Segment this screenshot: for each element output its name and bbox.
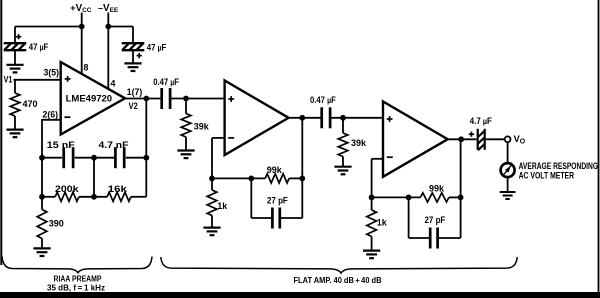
- wire 27pF-1 bottom a: [251, 217, 271, 219]
- svg-text:8: 8: [84, 63, 89, 73]
- wire feedback bottom row b: [79, 196, 107, 198]
- wire 27pF-2 right rise: [460, 197, 462, 238]
- svg-text:4.7 nF: 4.7 nF: [99, 140, 130, 150]
- wire left feedback column: [41, 119, 43, 210]
- wire U2 fb row b: [289, 177, 302, 179]
- wire U2 inv column: [211, 138, 213, 179]
- resistor 99k 2: [420, 193, 449, 202]
- U2 - input mark: [228, 137, 234, 139]
- C out + mark: [469, 132, 474, 137]
- wire C1 bottom stem: [14, 51, 16, 64]
- capacitor 0.47 uF 1: [162, 88, 170, 109]
- node U2 inv junction: [209, 176, 215, 182]
- U2 + input mark: [228, 96, 234, 102]
- C1 + mark: [16, 34, 21, 39]
- wire VO to meter: [507, 142, 509, 162]
- svg-text:35 dB, f = 1 kHz: 35 dB, f = 1 kHz: [47, 283, 105, 293]
- bottom border bar: [0, 292, 600, 298]
- capacitor 4.7 nF: [115, 147, 124, 168]
- ground below 470: [6, 130, 23, 138]
- wire U3 fb vertical: [460, 139, 462, 197]
- node VCC junction: [79, 24, 85, 30]
- U1 + input mark: [65, 76, 71, 82]
- capacitor 15 nF: [64, 147, 73, 168]
- wire 27pF-2 left drop: [408, 197, 410, 238]
- wire U2 - input: [212, 137, 225, 139]
- capacitor 27 pF 1: [272, 208, 279, 229]
- U3 - input mark: [387, 156, 393, 158]
- wire U1 - input: [42, 119, 61, 121]
- wire 1k-2 bottom stem: [371, 237, 373, 251]
- wire VCC rail to C1: [15, 26, 82, 28]
- capacitor C1 47uF: [4, 43, 27, 50]
- ground below 39k 1: [177, 151, 194, 159]
- node feedback bottom left: [39, 194, 45, 200]
- meter M1 circle: [501, 163, 515, 177]
- svg-text:39k: 39k: [194, 122, 210, 132]
- svg-text:470: 470: [23, 99, 38, 109]
- wire cap to VO terminal: [486, 138, 505, 140]
- ground below 1k 1: [203, 228, 220, 236]
- wire U2 output: [289, 117, 321, 119]
- wire 470 bottom stem: [14, 116, 16, 129]
- resistor 16k: [107, 192, 131, 201]
- svg-text:1k: 1k: [377, 218, 388, 228]
- resistor 1k 1: [207, 190, 217, 216]
- wire VCC stem to pin 8: [81, 13, 83, 75]
- wire V1 to op-amp + input: [14, 79, 61, 81]
- resistor 390: [37, 210, 47, 239]
- U3 + input mark: [387, 116, 393, 122]
- resistor 39k 1: [181, 114, 191, 138]
- wire 27pF-1 left drop: [250, 178, 252, 218]
- wire C2 top stem: [132, 27, 134, 44]
- svg-text:2(6): 2(6): [43, 110, 59, 120]
- C2 + mark: [137, 53, 142, 58]
- wire 1k-1 bottom stem: [211, 216, 213, 228]
- capacitor 4.7 uF: [478, 129, 485, 150]
- resistor 39k 2: [338, 133, 348, 157]
- wire V2 down to feedback: [145, 99, 147, 197]
- svg-text:3(5): 3(5): [44, 67, 60, 77]
- svg-text:4.7 µF: 4.7 µF: [470, 116, 493, 126]
- node U3 fb left: [406, 195, 412, 201]
- node feedback bottom mid: [91, 194, 97, 200]
- svg-text:FLAT AMP. 40 dB + 40 dB: FLAT AMP. 40 dB + 40 dB: [294, 275, 382, 285]
- resistor 1k 2: [367, 210, 377, 237]
- wire U2 fb vertical: [301, 118, 303, 179]
- wire 470 top stem: [14, 80, 16, 93]
- op-amp U3: [383, 102, 448, 177]
- svg-text:0.47 µF: 0.47 µF: [310, 95, 336, 105]
- wire C1 top stem: [14, 27, 16, 44]
- node VO terminal circle: [505, 136, 511, 142]
- svg-text:V1: V1: [4, 75, 13, 85]
- svg-text:0.47 µF: 0.47 µF: [153, 77, 179, 87]
- node feedback top right: [143, 155, 149, 161]
- wire feedback bottom row c: [131, 196, 146, 198]
- wire 39k-1 bottom stem: [185, 137, 187, 150]
- wire U1 output: [125, 98, 160, 100]
- left border line: [0, 0, 2, 265]
- svg-text:4: 4: [111, 79, 116, 89]
- ground below meter: [500, 192, 516, 199]
- wire 1k-1 stem: [211, 178, 213, 190]
- brace RIAA section: [2, 256, 152, 272]
- node U2 fb left: [248, 176, 254, 182]
- ground below C1: [6, 65, 23, 73]
- wire meter to ground: [507, 178, 509, 192]
- wire 39k-2 bottom stem: [342, 157, 344, 167]
- wire mid feedback column: [93, 158, 95, 197]
- wire VEE rail to C2: [108, 26, 133, 28]
- wire 27pF-1 bottom b: [281, 217, 303, 219]
- node U3 fb right: [458, 195, 464, 201]
- svg-text:LME49720: LME49720: [66, 94, 113, 105]
- wire 27pF-2 bottom b: [439, 237, 461, 239]
- ground below C2: [124, 63, 141, 71]
- capacitor 27 pF 2: [430, 228, 437, 249]
- svg-text:99k: 99k: [429, 183, 445, 193]
- svg-text:V2: V2: [129, 101, 138, 111]
- node 39k tap 2: [340, 115, 346, 121]
- node feedback top left: [39, 155, 45, 161]
- wire U3 fb row a: [372, 196, 421, 198]
- wire 39k-1 top stem: [185, 99, 187, 114]
- wire 27pF-1 right rise: [301, 178, 303, 218]
- wire U3 - input: [372, 158, 383, 160]
- ground below 1k 2: [363, 251, 380, 259]
- svg-text:47 µF: 47 µF: [147, 42, 167, 52]
- svg-text:16k: 16k: [108, 184, 128, 194]
- capacitor C2 47uF: [122, 43, 145, 50]
- wire 1k-2 stem: [371, 197, 373, 210]
- wire C2 bottom stem: [132, 51, 134, 63]
- svg-text:15 nF: 15 nF: [47, 140, 76, 150]
- node V2 junction: [143, 96, 149, 102]
- ground below 390: [33, 248, 50, 256]
- meter needle: [504, 165, 512, 175]
- node U2 fb right: [299, 176, 305, 182]
- svg-text:200k: 200k: [55, 184, 80, 194]
- wire U3 fb row b: [449, 196, 461, 198]
- resistor 470: [10, 93, 20, 116]
- right border line: [598, 0, 600, 298]
- U1 - input mark: [64, 116, 70, 118]
- wire U3 output: [448, 138, 477, 140]
- svg-text:1k: 1k: [217, 201, 228, 211]
- op-amp U1 LME49720: [61, 62, 125, 135]
- wire VEE stem to pin 4: [107, 13, 109, 90]
- svg-text:AC VOLT METER: AC VOLT METER: [519, 170, 575, 180]
- node VEE junction: [105, 24, 111, 30]
- brace FLAT AMP section: [161, 257, 517, 273]
- wire 39k-2 top stem: [342, 118, 344, 133]
- svg-text:390: 390: [49, 219, 64, 229]
- wire cap to 39k node: [171, 98, 224, 100]
- svg-text:39k: 39k: [351, 138, 367, 148]
- svg-text:1(7): 1(7): [127, 87, 143, 97]
- wire U3 inv column: [371, 159, 373, 198]
- node feedback top mid: [91, 155, 97, 161]
- svg-text:99k: 99k: [267, 165, 283, 175]
- node U3 output junction: [458, 136, 464, 142]
- ground below 39k 2: [334, 167, 351, 175]
- wire 27pF-2 bottom a: [409, 237, 430, 239]
- wire 390 bottom stem: [41, 239, 43, 249]
- op-amp U2: [225, 81, 289, 156]
- wire feedback top row c: [126, 157, 146, 159]
- wire cap2 to 39k node: [331, 117, 383, 119]
- wire feedback top row b: [75, 157, 114, 159]
- resistor 99k 1: [265, 174, 289, 183]
- wire feedback top row a: [42, 157, 62, 159]
- node U3 inv junction: [369, 195, 375, 201]
- svg-text:27 pF: 27 pF: [267, 195, 288, 205]
- capacitor 0.47 uF 2: [322, 107, 330, 128]
- wire feedback bottom row a: [42, 196, 55, 198]
- node 39k tap 1: [183, 96, 189, 102]
- resistor 200k: [55, 192, 79, 201]
- wire U2 fb row a: [212, 177, 265, 179]
- svg-text:27 pF: 27 pF: [425, 215, 446, 225]
- svg-text:47 µF: 47 µF: [29, 42, 49, 52]
- node U2 output junction: [299, 115, 305, 121]
